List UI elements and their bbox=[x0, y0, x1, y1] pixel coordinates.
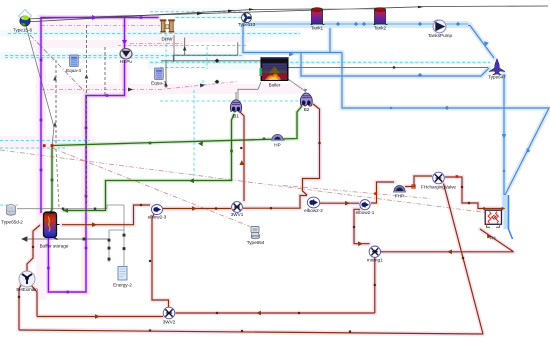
svg-text:FH: FH bbox=[489, 236, 495, 241]
svg-text:Type113: Type113 bbox=[238, 22, 256, 27]
svg-text:Boiler: Boiler bbox=[269, 83, 281, 88]
svg-text:Type65d-2: Type65d-2 bbox=[1, 220, 23, 225]
svg-text:DHW: DHW bbox=[162, 37, 174, 42]
svg-text:HP: HP bbox=[274, 143, 280, 148]
svg-text:Equa-3: Equa-3 bbox=[151, 81, 166, 86]
svg-text:Buffer storage: Buffer storage bbox=[40, 244, 69, 249]
svg-text:3WV2: 3WV2 bbox=[163, 320, 176, 325]
svg-text:mixing1: mixing1 bbox=[367, 258, 383, 263]
svg-text:Tank1: Tank1 bbox=[311, 26, 324, 31]
svg-text:FHchargingValve: FHchargingValve bbox=[421, 185, 456, 190]
svg-text:Type15-6: Type15-6 bbox=[13, 28, 33, 33]
svg-text:Type647: Type647 bbox=[488, 75, 506, 80]
svg-text:Tank2: Tank2 bbox=[374, 26, 387, 31]
svg-text:FHP: FHP bbox=[395, 194, 404, 199]
svg-text:elbow2-2: elbow2-2 bbox=[304, 208, 323, 213]
svg-text:TanksPump: TanksPump bbox=[428, 33, 452, 38]
svg-text:3WV1: 3WV1 bbox=[231, 212, 244, 217]
svg-text:Type654: Type654 bbox=[247, 240, 265, 245]
svg-text:B1: B1 bbox=[233, 114, 239, 119]
svg-text:Equa-4: Equa-4 bbox=[66, 68, 81, 73]
svg-text:SHExmain: SHExmain bbox=[16, 287, 38, 292]
svg-text:B2: B2 bbox=[304, 107, 310, 112]
svg-text:elbow2-3: elbow2-3 bbox=[148, 215, 167, 220]
svg-text:Energy-2: Energy-2 bbox=[113, 283, 132, 288]
svg-text:elbow2-1: elbow2-1 bbox=[356, 210, 375, 215]
svg-text:HXPu: HXPu bbox=[120, 59, 132, 64]
